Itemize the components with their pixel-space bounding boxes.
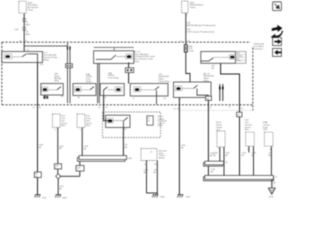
svg-text:G108: G108 bbox=[269, 196, 273, 198]
svg-text:24: 24 bbox=[173, 109, 175, 111]
svg-text:Pump Relay: Pump Relay bbox=[159, 81, 171, 83]
svg-text:4: 4 bbox=[223, 149, 224, 151]
svg-text:1n: 1n bbox=[210, 107, 212, 109]
svg-text:S2: S2 bbox=[225, 162, 227, 164]
svg-text:C4: C4 bbox=[275, 177, 277, 179]
svg-text:87: 87 bbox=[124, 129, 126, 131]
svg-text:1: 1 bbox=[218, 149, 219, 151]
svg-text:14: 14 bbox=[98, 107, 100, 109]
svg-text:1: 1 bbox=[187, 15, 188, 17]
svg-text:G103: G103 bbox=[42, 198, 46, 200]
svg-text:1c: 1c bbox=[180, 40, 182, 42]
svg-text:Assy: Assy bbox=[245, 128, 249, 131]
svg-text:Relay: Relay bbox=[236, 60, 241, 62]
svg-text:20: 20 bbox=[148, 121, 150, 123]
svg-text:16: 16 bbox=[105, 107, 107, 109]
svg-text:Module: Module bbox=[159, 158, 165, 160]
svg-text:R1: R1 bbox=[144, 164, 146, 166]
svg-text:2: 2 bbox=[273, 185, 274, 187]
svg-text:2: 2 bbox=[55, 130, 56, 132]
svg-text:29: 29 bbox=[35, 176, 37, 178]
svg-text:4: 4 bbox=[252, 149, 253, 151]
svg-text:8b: 8b bbox=[78, 97, 80, 99]
svg-text:C2: C2 bbox=[241, 108, 243, 110]
svg-text:G302: G302 bbox=[186, 196, 190, 198]
svg-text:2: 2 bbox=[80, 130, 81, 132]
svg-text:5: 5 bbox=[55, 168, 56, 170]
svg-text:439: 439 bbox=[206, 98, 209, 100]
svg-text:G402: G402 bbox=[62, 198, 66, 200]
svg-text:R2: R2 bbox=[154, 164, 156, 166]
svg-text:x2: x2 bbox=[150, 151, 152, 153]
svg-text:1: 1 bbox=[247, 149, 248, 151]
svg-text:3c: 3c bbox=[105, 97, 107, 99]
svg-text:Snsr: Snsr bbox=[216, 129, 220, 131]
svg-text:2c: 2c bbox=[133, 98, 135, 100]
svg-text:Assy: Assy bbox=[86, 124, 90, 127]
svg-text:43: 43 bbox=[237, 115, 239, 117]
svg-text:CKT (Late Production): CKT (Late Production) bbox=[187, 31, 215, 34]
svg-text:Relay: Relay bbox=[134, 61, 140, 63]
svg-text:ZR2): ZR2) bbox=[54, 81, 59, 83]
svg-text:1e: 1e bbox=[19, 40, 21, 42]
svg-text:2a: 2a bbox=[33, 107, 35, 109]
svg-text:25: 25 bbox=[177, 109, 179, 111]
svg-text:2: 2 bbox=[77, 170, 78, 172]
svg-text:Valve: Valve bbox=[263, 129, 267, 131]
svg-text:E8: E8 bbox=[61, 96, 63, 98]
svg-text:E1: E1 bbox=[164, 98, 166, 100]
svg-text:C428: C428 bbox=[127, 158, 131, 160]
svg-text:G305: G305 bbox=[160, 196, 164, 198]
svg-text:Pump: Pump bbox=[189, 51, 194, 53]
svg-text:1d: 1d bbox=[187, 40, 189, 42]
svg-text:Fuse Relay: Fuse Relay bbox=[108, 78, 119, 80]
svg-text:Pump: Pump bbox=[28, 9, 34, 11]
svg-text:Assy: Assy bbox=[61, 124, 65, 127]
svg-text:2b: 2b bbox=[39, 107, 41, 109]
svg-text:Crossover: Crossover bbox=[254, 48, 264, 51]
svg-text:BK/W (Early Production): BK/W (Early Production) bbox=[187, 24, 216, 27]
svg-text:Pump: Pump bbox=[190, 7, 196, 9]
svg-text:E14: E14 bbox=[40, 64, 43, 66]
svg-text:C100: C100 bbox=[14, 29, 18, 31]
svg-text:Relay: Relay bbox=[158, 125, 163, 127]
